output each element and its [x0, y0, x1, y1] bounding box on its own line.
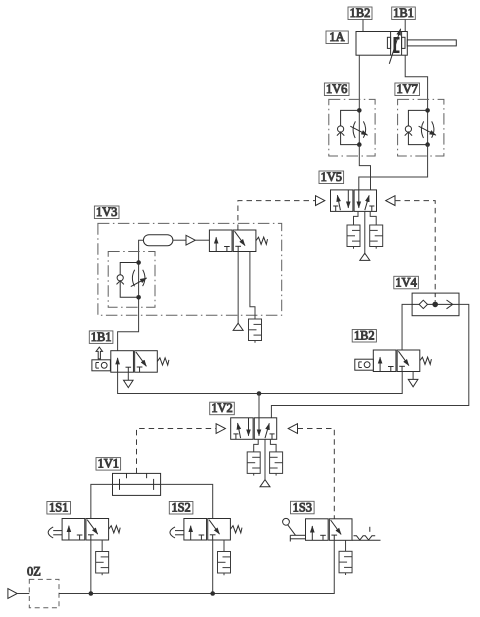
wire (cylinder left port to 1V6)	[358, 55, 360, 110]
wire (1V4 right to 1V2 port 2)	[271, 304, 468, 417]
wire (1S2 supply)	[212, 540, 214, 594]
label 1A	[326, 30, 348, 44]
wire (1V5 port 5)	[354, 211, 359, 225]
flow control inside 1V3	[108, 252, 155, 308]
pushbutton valve 1S2	[170, 519, 242, 541]
svg-text:1A: 1A	[329, 30, 344, 44]
pilot triangle (1V2 right)	[288, 424, 297, 434]
wire (1V2 port 4 to bus)	[258, 394, 260, 418]
label 1V4	[394, 275, 419, 289]
wire (reservoir to pilot)	[173, 239, 186, 241]
label 1V2	[210, 401, 235, 415]
svg-text:1V3: 1V3	[96, 205, 117, 219]
wire (1V3 main line down to 1B1)	[118, 240, 144, 351]
wire (1B2 exhaust)	[412, 372, 414, 380]
label 1V6	[324, 82, 349, 96]
spring (timer valve)	[256, 237, 268, 244]
label 1B1 (sensor)	[392, 6, 416, 20]
wire (timer port 1)	[237, 252, 239, 324]
label 1B1 (valve)	[89, 330, 113, 344]
wire (1V5 port 1)	[364, 211, 366, 253]
wire (1S2 to 1V1)	[161, 484, 213, 518]
throttle check valve 1V6	[329, 99, 375, 156]
label 1B2 (sensor)	[348, 6, 372, 20]
junction (1S2 supply)	[210, 591, 215, 596]
svg-text:1V5: 1V5	[321, 170, 342, 184]
timer unit 1V3 enclosure	[98, 223, 282, 315]
silencer (1V2 left)	[247, 452, 260, 476]
svg-text:1V4: 1V4	[395, 275, 416, 289]
svg-text:1S3: 1S3	[293, 500, 312, 514]
exhaust triangle (1B2)	[408, 379, 418, 386]
svg-text:1B2: 1B2	[350, 6, 371, 20]
exhaust triangle (1B1)	[124, 380, 134, 387]
wire (1B2 output to 1V4 left)	[402, 304, 412, 350]
silencer (1S1)	[96, 552, 109, 576]
roller limit valve 1B2	[355, 350, 432, 372]
svg-text:1S2: 1S2	[171, 501, 190, 515]
svg-text:0Z: 0Z	[27, 565, 41, 579]
wire (1V7 to 1V5 port A)	[359, 145, 428, 190]
junction	[257, 391, 262, 396]
svg-text:1B2: 1B2	[354, 329, 375, 343]
label 1B2 (valve)	[352, 329, 376, 343]
silencer (timer)	[249, 319, 262, 343]
air supply triangle (1V2)	[260, 480, 270, 487]
svg-text:1V2: 1V2	[211, 401, 232, 415]
wire (1S1 to 1V1)	[91, 484, 113, 518]
cylinder 1A	[356, 32, 456, 56]
label 1V5	[319, 170, 344, 184]
wire (1V2 port 1)	[264, 439, 266, 479]
5/2-way valve 1V2	[231, 418, 277, 440]
wire (timer port 3)	[250, 252, 255, 320]
silencer (1V2 right)	[270, 452, 283, 476]
svg-text:1V1: 1V1	[98, 457, 119, 471]
shuttle valve 1V4	[412, 293, 459, 316]
air supply triangle (1V5)	[360, 253, 370, 260]
pilot line (timer to 1V5 left)	[238, 201, 315, 230]
wire (1B2 leader)	[362, 20, 364, 32]
wire (1B1 supply bus to 1B2)	[118, 372, 403, 394]
5/2-way valve 1V5	[331, 190, 377, 212]
label 1S2	[169, 501, 193, 515]
wire (1S2 exhaust)	[223, 540, 225, 552]
wire (1V2 port 3)	[270, 439, 276, 452]
throttle check valve 1V7	[398, 99, 444, 156]
label 1S1	[47, 501, 71, 515]
svg-text:1S1: 1S1	[49, 501, 68, 515]
wire (1S1 exhaust)	[101, 540, 103, 552]
wire (main supply bus)	[59, 540, 334, 593]
pushbutton valve 1S1	[48, 519, 120, 541]
junction (1S1 supply)	[89, 591, 94, 596]
sensor actuation arrow (1B1)	[389, 29, 400, 64]
wire (1B1 exhaust)	[127, 372, 129, 380]
actuated marker (hollow arrow)	[96, 347, 102, 359]
silencer (1S3)	[339, 551, 352, 575]
label 1S3	[291, 500, 315, 514]
wire (triangle to timer valve)	[195, 239, 209, 241]
wire (1B1 leader)	[404, 20, 406, 32]
roller limit valve 1B1	[92, 351, 169, 373]
air supply triangle (timer)	[233, 323, 243, 330]
pilot triangle (1V5 left)	[316, 196, 325, 206]
pilot line (1S3 to 1V2 right)	[298, 429, 335, 519]
pilot line (1V1 to 1V2 left)	[137, 429, 216, 474]
svg-text:1B1: 1B1	[91, 330, 112, 344]
label 1V1	[96, 457, 121, 471]
pilot indicator triangle (1V3)	[186, 235, 195, 245]
air reservoir (1V3)	[143, 235, 173, 246]
pilot triangle (1V2 left)	[216, 424, 225, 434]
wire (1S3 exhaust)	[345, 540, 347, 551]
two-pressure valve 1V1	[113, 473, 161, 495]
svg-text:1B1: 1B1	[393, 6, 414, 20]
silencer (1V5 right)	[370, 225, 383, 249]
wire (1V5 port 3)	[370, 211, 376, 225]
silencer (1S2)	[218, 552, 231, 576]
svg-text:1V7: 1V7	[397, 82, 418, 96]
wire (1V6 to 1V5 port B)	[359, 145, 370, 190]
wire (1S1 supply)	[90, 540, 92, 594]
pilot line (1V4 to 1V5 right)	[395, 201, 435, 294]
wire (cylinder right port to 1V7)	[405, 55, 427, 110]
compressed air source 0Z	[8, 579, 59, 607]
silencer (1V5 left)	[347, 225, 360, 249]
svg-text:1V6: 1V6	[326, 82, 347, 96]
label 1V7	[395, 82, 420, 96]
wire (1V2 port 5)	[254, 439, 259, 452]
selector valve 1S3	[283, 518, 381, 541]
pilot triangle (1V5 right)	[386, 196, 395, 206]
3/2 timer valve (1V3)	[209, 230, 256, 252]
label 1V3	[94, 205, 119, 219]
